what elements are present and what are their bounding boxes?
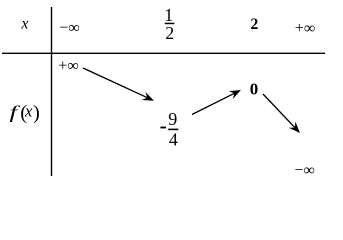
svg-text:+∞: +∞ bbox=[295, 20, 315, 37]
value 9/4 bar bbox=[168, 129, 178, 131]
arrow decreasing 1 head bbox=[142, 92, 156, 105]
svg-text:1: 1 bbox=[164, 5, 173, 25]
svg-text:2: 2 bbox=[250, 16, 258, 33]
arrow increasing head bbox=[229, 86, 243, 99]
value minus 9/4 minus sign bbox=[160, 127, 166, 129]
svg-text:x: x bbox=[24, 101, 33, 120]
arrow increasing shaft bbox=[192, 93, 236, 115]
arrow decreasing 2 head bbox=[289, 122, 303, 137]
svg-text:0: 0 bbox=[250, 80, 259, 99]
svg-text:−∞: −∞ bbox=[294, 162, 314, 179]
arrow decreasing 1 shaft bbox=[83, 68, 149, 98]
svg-text:−∞: −∞ bbox=[59, 20, 79, 37]
table vertical rule bbox=[51, 7, 53, 176]
svg-text:): ) bbox=[33, 102, 40, 124]
svg-text:9: 9 bbox=[168, 109, 177, 129]
table horizontal rule bbox=[2, 52, 325, 54]
header value 1/2 bar bbox=[165, 23, 175, 25]
svg-text:+∞: +∞ bbox=[58, 57, 78, 74]
svg-text:x: x bbox=[20, 16, 28, 33]
arrow decreasing 2 shaft bbox=[263, 94, 296, 129]
svg-text:4: 4 bbox=[169, 129, 178, 149]
svg-text:2: 2 bbox=[165, 23, 174, 43]
